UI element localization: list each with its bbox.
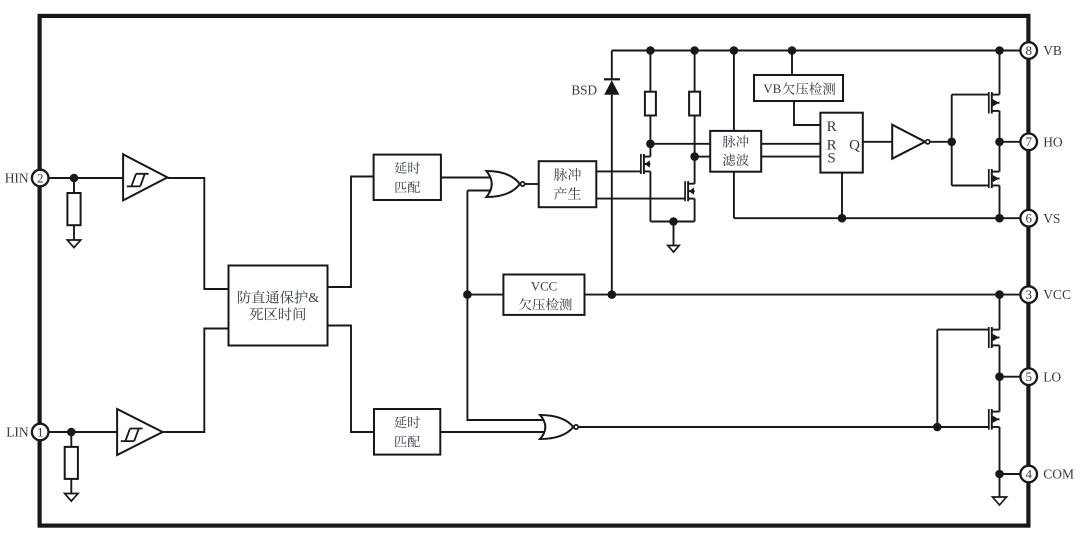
svg-text:HO: HO	[1043, 134, 1063, 149]
resistor R2	[689, 51, 700, 157]
svg-text:LIN: LIN	[6, 425, 29, 440]
node LO	[995, 372, 1004, 381]
transistor M5 (LO high)	[937, 327, 999, 348]
ground below R_hin	[67, 240, 80, 248]
wire M6 source to COM	[999, 427, 1001, 474]
svg-text:VCC: VCC	[531, 279, 557, 293]
block delay match (upper)	[374, 155, 441, 200]
svg-text:COM: COM	[1043, 467, 1074, 482]
wire pulse-gen out1 (to M1 gate)	[596, 170, 638, 172]
svg-text:1: 1	[37, 424, 44, 439]
wire M2 drain up	[694, 157, 696, 184]
wire M2 source down	[694, 199, 696, 222]
wire pulse-gen out2 (to M2 gate)	[596, 198, 683, 200]
node source join	[669, 217, 678, 226]
pin 8 VB	[1020, 42, 1062, 59]
node VS latch tap	[838, 214, 847, 223]
pin 4 COM	[1020, 466, 1074, 483]
wire rail to pulse filter top	[733, 51, 735, 131]
wire dead-time to upper delay match	[328, 177, 374, 288]
node inverter out	[947, 138, 956, 147]
transistor M1	[638, 154, 651, 174]
node rail R2 tap	[690, 46, 699, 55]
wire schmitt U2 out to dead-time block	[163, 329, 229, 433]
wire VCC row	[467, 294, 1020, 296]
node VCC output tap	[995, 290, 1004, 299]
node rail output tap	[995, 46, 1004, 55]
block delay match (lower)	[374, 409, 440, 455]
transistor M4 (HO low)	[952, 169, 1000, 188]
svg-text:VB: VB	[1043, 43, 1062, 58]
transistor M6 (LO low)	[937, 409, 999, 430]
gate NOR2 (LO driver)	[540, 415, 937, 439]
block anti shoot-through & dead time	[229, 266, 328, 346]
wire M2 drain to pulse filter	[695, 156, 711, 158]
svg-text:4: 4	[1025, 466, 1032, 481]
node VS output tap	[995, 214, 1004, 223]
block pulse generation	[539, 161, 597, 207]
wire M5 source to LO	[999, 345, 1001, 376]
svg-text:HIN: HIN	[5, 171, 29, 186]
node rail R1 tap	[646, 46, 655, 55]
wire VB-detect to latch R	[794, 101, 820, 125]
wire filter to latch R2	[761, 143, 820, 145]
svg-text:&: &	[308, 291, 319, 306]
wire lower delay match to NOR2 input	[440, 431, 545, 433]
block RS latch U3	[820, 113, 862, 173]
wire HO to M4 drain	[999, 142, 1001, 172]
svg-text:BSD: BSD	[571, 82, 597, 97]
node rail filter tap	[730, 46, 739, 55]
gate NOR1 (pulse trigger)	[486, 171, 538, 197]
transistor M2	[683, 181, 695, 201]
pin 2 HIN	[5, 170, 49, 187]
wire LO gate bus vertical	[936, 330, 938, 427]
block VB undervoltage detect	[754, 75, 843, 101]
wire HO node to pin	[1000, 141, 1021, 143]
pin 5 LO	[1020, 368, 1061, 385]
wire COM node to pin	[1000, 473, 1021, 475]
svg-text:3: 3	[1025, 287, 1032, 302]
wire VS row	[734, 217, 1021, 219]
resistor R_lin pulldown	[65, 432, 78, 494]
wire VB rail to M3 drain	[999, 51, 1001, 95]
wire HO gate bus vertical	[951, 95, 953, 186]
wire VB top rail	[612, 50, 1021, 52]
wire filter to latch S	[761, 156, 820, 158]
svg-text:7: 7	[1025, 134, 1032, 149]
wire LO node to pin	[1000, 376, 1021, 378]
pin 1 LIN	[6, 424, 48, 441]
svg-text:Q: Q	[849, 137, 860, 153]
svg-text:6: 6	[1025, 211, 1032, 226]
svg-text:8: 8	[1025, 43, 1032, 58]
svg-text:VCC: VCC	[1043, 287, 1071, 302]
node COM	[995, 470, 1004, 479]
wire VCC rail to M5 drain	[999, 295, 1001, 330]
wire M1-M2 source join	[650, 221, 694, 223]
diode BSD bootstrap	[604, 51, 620, 295]
schmitt buffer U2 (LIN)	[117, 409, 163, 455]
wire latch Q to inverter	[863, 141, 892, 143]
svg-text:VS: VS	[1043, 211, 1060, 226]
ground below M1 M2	[668, 222, 679, 253]
wire M1 drain up	[649, 144, 651, 157]
wire LO to M6 drain	[999, 377, 1001, 412]
block VCC undervoltage detect	[503, 275, 584, 315]
resistor R_hin pulldown	[67, 178, 80, 240]
node VCC diode tap	[608, 290, 617, 299]
ground below R_lin	[65, 494, 78, 502]
node HIN junction	[70, 174, 79, 183]
svg-text:VB: VB	[763, 81, 781, 96]
svg-text:R: R	[827, 119, 837, 135]
node HO	[995, 138, 1004, 147]
wire M1 source down	[649, 171, 651, 221]
wire M4 source to VS	[999, 186, 1001, 219]
wire M3 source to HO	[999, 111, 1001, 142]
node M2 drain	[690, 152, 699, 161]
wire latch bottom to VS	[841, 173, 843, 219]
wire schmitt U1 out to dead-time block	[167, 178, 228, 289]
wire HIN pin to schmitt input	[48, 177, 123, 179]
node LO gate bus	[933, 423, 942, 432]
wire pulse filter bottom to VS	[733, 172, 735, 219]
wire rail to VB-detect top	[791, 51, 793, 76]
pin 6 VS	[1020, 210, 1060, 227]
svg-text:5: 5	[1025, 369, 1032, 384]
schmitt buffer U1 (HIN)	[123, 154, 167, 200]
pin 3 VCC	[1020, 286, 1071, 303]
node rail VB-detect tap	[788, 46, 797, 55]
resistor R1	[645, 51, 656, 144]
pin 7 HO	[1020, 134, 1063, 151]
svg-text:2: 2	[37, 170, 44, 185]
wire dead-time to lower delay match	[328, 326, 375, 433]
transistor M3 (HO high)	[952, 92, 1000, 114]
svg-text:LO: LO	[1043, 369, 1061, 384]
wire NOR1 input B from bus	[467, 190, 490, 192]
node VCC bus tap	[463, 290, 472, 299]
wire LIN-side bus vertical	[467, 191, 545, 421]
wire LIN pin to schmitt input	[48, 431, 117, 433]
wire delay match to NOR1 input A	[441, 177, 490, 179]
wire M1 drain to pulse filter	[650, 143, 710, 145]
ground COM	[993, 474, 1007, 505]
node LIN junction	[67, 428, 76, 437]
svg-text:S: S	[827, 150, 835, 166]
block pulse filter	[710, 131, 761, 172]
inverter U4	[892, 125, 952, 159]
node M1 drain	[646, 140, 655, 149]
